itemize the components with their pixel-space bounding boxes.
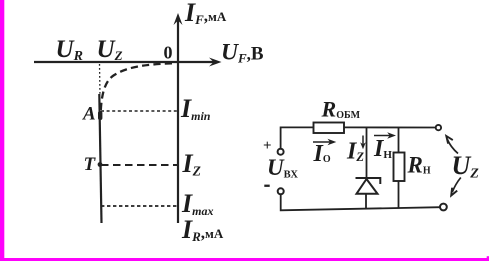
magenta right-end uptick [487, 256, 489, 259]
wire: zener branch top [366, 128, 368, 179]
wire: top rail from resistor to output terminal [344, 126, 435, 128]
dashed reverse-characteristic curve [101, 63, 172, 113]
vertical current axis (IF axis) [177, 17, 179, 223]
wire: plus terminal riser [281, 127, 314, 148]
point A blob [98, 111, 102, 120]
zener diode VD triangle [357, 179, 378, 194]
input terminal top [278, 149, 284, 155]
svg-text:A: A [82, 104, 96, 125]
minus sign [264, 185, 269, 187]
output terminal top [436, 125, 441, 130]
wire: bottom rail [281, 195, 441, 211]
IZ down arrow [362, 136, 364, 146]
resistor R_obm (series limiting resistor) [314, 123, 345, 134]
current arrow In [374, 135, 391, 137]
zener diode VD cathode bar [356, 178, 381, 184]
UZ arrow down toward bottom output terminal [452, 178, 461, 193]
vertical axis arrowhead [174, 13, 183, 25]
solid breakdown line [99, 94, 101, 223]
svg-text:T: T [84, 154, 97, 175]
UZ arrow up toward top output terminal [447, 139, 458, 154]
horizontal axis arrowhead [209, 58, 222, 67]
magenta bottom border line [0, 258, 489, 261]
dashed Imin level line [101, 110, 177, 112]
horizontal voltage axis (UF axis) [34, 61, 217, 63]
svg-text:+: + [263, 138, 272, 154]
magenta left border bar [0, 0, 4, 261]
current arrow I0 [313, 141, 331, 143]
load resistor Rn [394, 153, 405, 182]
point T dot [98, 162, 103, 167]
wire: load branch top [398, 128, 400, 153]
svg-text:0: 0 [164, 43, 173, 63]
dashed IZ level line [101, 164, 177, 166]
output terminal bottom [440, 204, 447, 211]
dotted UZ vertical guide line [99, 64, 102, 96]
input terminal bottom [278, 188, 284, 194]
dashed Imax level line [101, 205, 177, 207]
wire: load branch bottom [398, 181, 400, 208]
wire: zener branch bottom [365, 194, 367, 209]
